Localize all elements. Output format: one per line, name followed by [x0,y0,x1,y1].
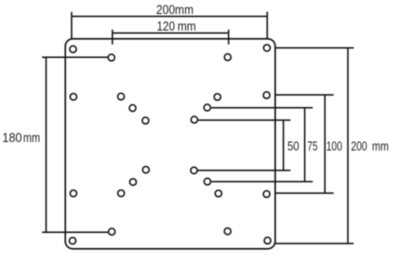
hole bottom-left corner [69,238,76,245]
hole diagonal lower-left outer [118,190,125,197]
extension line bottom of 200mm right [275,243,353,245]
svg-text:180: 180 [2,131,22,145]
extension line left of 200mm top [71,12,73,40]
hole diagonal upper-right middle [204,104,211,111]
hole diagonal upper-left middle [129,105,136,112]
hole top-right corner [264,45,271,52]
hole left column lower [70,190,77,197]
extension line top of 75mm [211,107,313,109]
dimension 180mm left: vertical line [45,57,47,232]
hole 120mm top-right [224,54,231,61]
hole diagonal upper-right inner [191,116,198,123]
extension line top of 200mm right [275,47,354,49]
plate outline [65,39,275,249]
hole diagonal upper-right outer [214,94,221,101]
extension line top of 100mm [275,94,334,96]
hole diagonal upper-left outer [118,93,125,100]
hole diagonal lower-right outer [215,190,222,197]
hole diagonal lower-left inner [143,167,150,174]
extension line top of 50mm [198,119,290,121]
svg-text:75: 75 [307,139,317,153]
hole right column upper [263,92,270,99]
dimension 200mm top: line [72,15,268,17]
dimension 120mm top: line [112,32,228,34]
extension line bottom of 100mm [275,192,334,194]
dimension 100mm right: vertical line [324,95,326,193]
extension line right of 200mm top [266,12,268,40]
extension line bottom of 50mm [198,169,291,171]
svg-text:mm: mm [372,139,389,153]
svg-text:200mm: 200mm [156,3,193,17]
svg-text:120: 120 [157,19,175,33]
hole diagonal lower-right inner [191,167,198,174]
svg-text:mm: mm [23,131,40,145]
hole left column upper [70,94,77,101]
extension line right of 120mm [228,30,230,45]
dimension 75mm right: vertical line [304,108,306,182]
hole bottom-right corner [264,237,271,244]
svg-text:mm: mm [178,19,197,33]
dimension 50mm right: vertical line [282,120,284,170]
dimension 200mm right: vertical line [347,48,349,244]
svg-text:50: 50 [287,139,299,153]
hole diagonal lower-right middle [204,178,211,185]
hole 180mm bottom-left [109,228,116,235]
extension line bottom of 180mm [42,231,108,233]
extension line top of 180mm [42,56,108,58]
extension line left of 120mm [111,30,113,45]
hole right column lower [263,191,270,198]
hole diagonal upper-left inner [142,117,149,124]
svg-text:100: 100 [326,139,342,153]
svg-text:200: 200 [351,139,367,153]
hole 120mm top-left [108,54,115,61]
extension line bottom of 75mm [211,181,312,183]
hole bottom inner right [224,228,231,235]
hole diagonal lower-left middle [130,179,137,186]
hole top-left corner [70,46,77,53]
